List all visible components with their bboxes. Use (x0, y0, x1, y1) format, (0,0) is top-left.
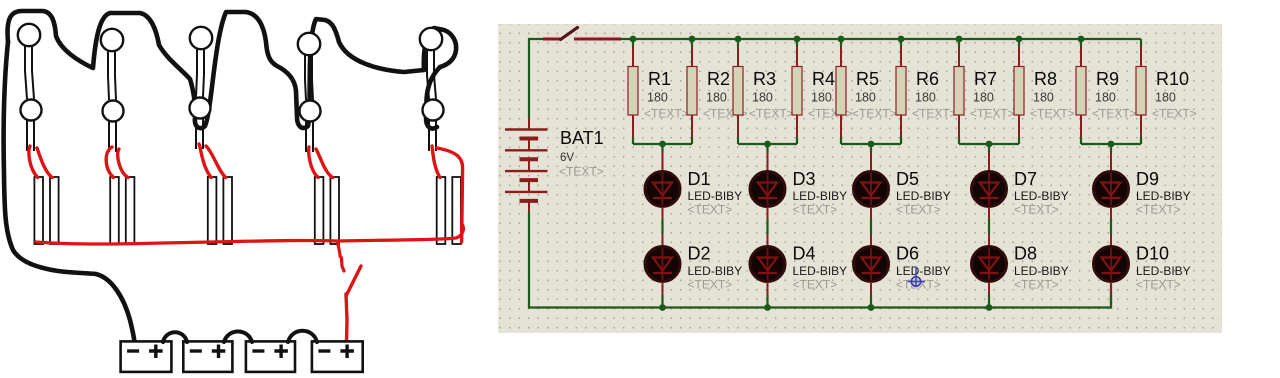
resistor R3 (180 ohm) (733, 39, 743, 144)
wire: battery top wire (rail corner down to BAT1) (528, 38, 530, 118)
battery cell B2 (sketch battery box) (183, 341, 232, 372)
node: junction dot on top rail at R8 (1016, 36, 1023, 43)
wire: red lead 2a (lamp 2 stem to left bar) (106, 147, 113, 178)
wire: black garland top meander over bulbs (8, 11, 457, 129)
wire: red lead 3b (lamp 3 stem to right bar) (206, 146, 226, 178)
bulb L1a (top row lamp 1) (18, 24, 40, 46)
svg-text:D7: D7 (1014, 169, 1037, 189)
svg-text:180: 180 (752, 91, 773, 105)
wire: D7 to D8 (988, 207, 990, 246)
resistor R10 (180 ohm) (1136, 39, 1146, 144)
lamp holder pair 5 (two contact bars) (437, 177, 461, 244)
svg-text:<TEXT>: <TEXT> (912, 107, 957, 121)
svg-text:<TEXT>: <TEXT> (852, 107, 897, 121)
node: junction dot on top rail at R3 (735, 36, 742, 43)
svg-text:D5: D5 (896, 169, 919, 189)
node: junction dot on top rail at R1 (630, 36, 637, 43)
svg-text:180: 180 (647, 91, 668, 105)
battery cell B3 (sketch battery box) (246, 341, 295, 372)
LED D6 (LED-BIBY) (854, 247, 889, 282)
svg-text:LED-BIBY: LED-BIBY (793, 189, 848, 203)
LED D4 (LED-BIBY) (750, 247, 785, 282)
svg-text:LED-BIBY: LED-BIBY (688, 264, 743, 278)
svg-text:6V: 6V (560, 152, 574, 164)
svg-text:D2: D2 (688, 244, 711, 264)
svg-text:<TEXT>: <TEXT> (896, 203, 941, 217)
cursor: blue crosshair origin marker near D6 label (908, 267, 926, 290)
bulb L1b (second row lamp 1) (21, 100, 42, 121)
svg-text:<TEXT>: <TEXT> (644, 107, 689, 121)
wire: pair 1 mid wire down to D1 (661, 144, 663, 171)
svg-text:<TEXT>: <TEXT> (1092, 107, 1137, 121)
LED D3 (LED-BIBY) (750, 172, 785, 207)
wire: link battery B3 to B4 (288, 331, 317, 342)
wire: red lead 3a (lamp 3 stem to left bar) (199, 144, 211, 178)
wire: stem of bulb L2b (109, 121, 116, 152)
wire: D5 to D6 (870, 207, 872, 246)
node: junction dot at pair 5 midpoint (1108, 141, 1115, 148)
wire: D1 to D2 (662, 207, 664, 246)
bulb L2b (second row lamp 2) (103, 101, 124, 122)
resistor R2 (180 ohm) (687, 39, 697, 144)
svg-text:R10: R10 (1156, 69, 1189, 89)
wire: stem of bulb L4a (305, 54, 313, 100)
wire: pair 5 mid wire down to D9 (1110, 144, 1112, 171)
wire: pair 2 mid wire down to D3 (766, 144, 768, 171)
svg-text:R9: R9 (1096, 69, 1119, 89)
wire: link battery B2 to B3 (224, 332, 252, 343)
resistor R7 (180 ohm) (954, 39, 964, 144)
bulb L4a (top row lamp 4) (298, 33, 320, 55)
schematic sheet background (Proteus grid area) (498, 24, 1222, 333)
svg-text:R6: R6 (916, 69, 939, 89)
svg-text:R8: R8 (1034, 69, 1057, 89)
wire: black garland outline (left edge, bottom curve to battery) (4, 42, 135, 342)
svg-text:D1: D1 (688, 169, 711, 189)
wire: connector joining R5 and R6 bottoms (841, 143, 901, 145)
wire: pair 4 mid wire down to D7 (988, 144, 990, 171)
resistor R5 (180 ohm) (836, 39, 846, 144)
lamp holder pair 1 (two contact bars) (34, 177, 58, 244)
svg-text:R2: R2 (707, 69, 730, 89)
wire: connector joining R3 and R4 bottoms (738, 143, 797, 145)
svg-text:LED-BIBY: LED-BIBY (896, 264, 951, 278)
switch SW1 (open switch on top rail, shown red/selected) (543, 28, 621, 40)
wire: red lead 5b (lamp 5 stem around right bar) (437, 148, 463, 242)
svg-text:LED-BIBY: LED-BIBY (896, 189, 951, 203)
lamp holder pair 2 (two contact bars) (110, 177, 134, 244)
svg-text:LED-BIBY: LED-BIBY (1136, 189, 1191, 203)
svg-text:LED-BIBY: LED-BIBY (688, 189, 743, 203)
svg-text:180: 180 (1095, 91, 1116, 105)
wire: D4 down to bottom rail (767, 282, 769, 308)
svg-text:<TEXT>: <TEXT> (793, 203, 838, 217)
svg-text:LED-BIBY: LED-BIBY (793, 264, 848, 278)
node: junction dot on top rail at R4 (794, 36, 801, 43)
wire: D8 down to bottom rail (988, 282, 990, 308)
svg-text:<TEXT>: <TEXT> (1136, 278, 1181, 292)
svg-text:<TEXT>: <TEXT> (793, 278, 838, 292)
svg-text:D3: D3 (793, 169, 816, 189)
resistor R8 (180 ohm) (1014, 39, 1024, 144)
wire: stem of bulb L5b (429, 120, 436, 151)
LED D9 (LED-BIBY) (1094, 172, 1129, 207)
svg-text:D6: D6 (896, 244, 919, 264)
wire: pair 3 mid wire down to D5 (870, 144, 872, 171)
wire: stem of bulb L3a (196, 48, 204, 97)
svg-text:180: 180 (973, 91, 994, 105)
svg-text:180: 180 (1155, 91, 1176, 105)
node: junction dot on top rail at R5 (838, 36, 845, 43)
bulb L2a (top row lamp 2) (101, 29, 123, 51)
svg-text:LED-BIBY: LED-BIBY (1014, 264, 1069, 278)
svg-text:180: 180 (915, 91, 936, 105)
node: junction dot at pair 1 midpoint (659, 141, 666, 148)
svg-text:R3: R3 (753, 69, 776, 89)
svg-text:D4: D4 (793, 244, 816, 264)
node: junction dot on bottom rail at column 4 (986, 304, 993, 311)
wire: stem of bulb L3b (196, 118, 203, 149)
resistor R4 (180 ohm) (792, 39, 802, 144)
node: junction dot on bottom rail at column 2 (764, 304, 771, 311)
node: junction dot at pair 4 midpoint (986, 141, 993, 148)
resistor R9 (180 ohm) (1076, 39, 1086, 144)
wire: D10 down to bottom rail (1110, 282, 1112, 308)
node: junction dot on top rail at R7 (956, 36, 963, 43)
LED D10 (LED-BIBY) (1094, 247, 1129, 282)
wire: red lead 4b (lamp 4 stem to right bar) (316, 149, 333, 178)
wire: red lead 5a (lamp 5 stem to left bar) (432, 146, 440, 178)
svg-text:<TEXT>: <TEXT> (970, 107, 1015, 121)
wire: red branch from bus down to switch (338, 242, 345, 271)
wire: connector joining R9 and R10 bottoms (1081, 143, 1141, 145)
wire: top power rail from battery/switch to R10 (529, 38, 1141, 40)
wire: red lead 1a (lamp 1 stem to left bar) (29, 146, 38, 178)
LED D7 (LED-BIBY) (972, 172, 1007, 207)
svg-text:R4: R4 (812, 69, 835, 89)
svg-text:D9: D9 (1136, 169, 1159, 189)
svg-text:<TEXT>: <TEXT> (688, 203, 733, 217)
wire: red wire from switch to battery plus terminal (346, 294, 347, 342)
svg-text:LED-BIBY: LED-BIBY (1136, 264, 1191, 278)
svg-text:<TEXT>: <TEXT> (1030, 107, 1075, 121)
wire: stem of bulb L1a (25, 45, 34, 99)
svg-text:<TEXT>: <TEXT> (559, 165, 604, 179)
bulb L5b (second row lamp 5) (423, 100, 444, 121)
svg-text:180: 180 (811, 91, 832, 105)
node: junction dot on top rail at R6 (898, 36, 905, 43)
svg-text:<TEXT>: <TEXT> (749, 107, 794, 121)
battery BAT1 (4-cell battery symbol) (505, 118, 548, 212)
node: junction dot at pair 2 midpoint (764, 141, 771, 148)
battery cell B4 (sketch battery box) (312, 341, 363, 372)
wire: red lead 1b (lamp 1 stem to right bar) (37, 148, 52, 178)
bulb L4b (second row lamp 4) (300, 101, 321, 122)
bulb L5a (top row lamp 5) (420, 28, 442, 50)
wire: connector joining R7 and R8 bottoms (959, 143, 1019, 145)
wire: red lead 2b (lamp 2 stem to right bar) (118, 149, 128, 178)
lamp holder pair 3 (two contact bars) (208, 177, 232, 244)
wire: red bus wire connecting all holder bottoms (36, 224, 463, 244)
wire: D9 to D10 (1110, 207, 1112, 246)
lamp holder pair 4 (two contact bars) (315, 177, 339, 244)
svg-text:<TEXT>: <TEXT> (1136, 203, 1181, 217)
node: junction dot on top rail at R2 (689, 36, 696, 43)
node: junction dot on top rail at R9 (1078, 36, 1085, 43)
svg-text:LED-BIBY: LED-BIBY (1014, 189, 1069, 203)
wire: stem of bulb L1b (27, 120, 34, 151)
LED D5 (LED-BIBY) (854, 172, 889, 207)
wire: D6 down to bottom rail (870, 282, 872, 308)
LED D8 (LED-BIBY) (972, 247, 1007, 282)
LED D2 (LED-BIBY) (645, 247, 680, 282)
svg-text:D8: D8 (1014, 244, 1037, 264)
svg-text:D10: D10 (1136, 244, 1169, 264)
svg-text:180: 180 (1033, 91, 1054, 105)
wire: stem of bulb L4b (306, 121, 313, 152)
svg-text:<TEXT>: <TEXT> (688, 278, 733, 292)
wire: red lead 4a (lamp 4 stem to left bar) (309, 147, 318, 178)
bulb L3b (second row lamp 3) (190, 98, 211, 119)
node: junction dot on bottom rail at column 3 (868, 304, 875, 311)
node: junction dot at pair 3 midpoint (868, 141, 875, 148)
wire: bottom return rail (528, 282, 1111, 308)
svg-text:R5: R5 (856, 69, 879, 89)
resistor R1 (180 ohm) (628, 39, 638, 144)
resistor R6 (180 ohm) (896, 39, 906, 144)
svg-text:R7: R7 (974, 69, 997, 89)
svg-text:BAT1: BAT1 (560, 128, 604, 148)
wire: stem of bulb L2a (108, 50, 116, 100)
wire: link battery B1 to B2 (163, 332, 187, 342)
LED D1 (LED-BIBY) (645, 172, 680, 207)
wire: stem of bulb L5a (427, 49, 436, 99)
svg-text:R1: R1 (648, 69, 671, 89)
wire: connector joining R1 and R2 bottoms (633, 143, 692, 145)
svg-text:<TEXT>: <TEXT> (1014, 278, 1059, 292)
svg-text:<TEXT>: <TEXT> (1014, 203, 1059, 217)
wire: D3 to D4 (767, 207, 769, 246)
svg-text:<TEXT>: <TEXT> (1152, 107, 1197, 121)
battery cell B1 (sketch battery box) (121, 341, 172, 372)
wire: battery bottom wire down to ground rail (528, 212, 530, 308)
svg-text:180: 180 (855, 91, 876, 105)
switch SW (open knife switch, red) (346, 266, 361, 296)
svg-text:180: 180 (706, 91, 727, 105)
bulb L3a (top row lamp 3) (190, 27, 212, 49)
node: junction dot on bottom rail at column 1 (659, 304, 666, 311)
wire: D2 down to bottom rail (662, 282, 664, 308)
